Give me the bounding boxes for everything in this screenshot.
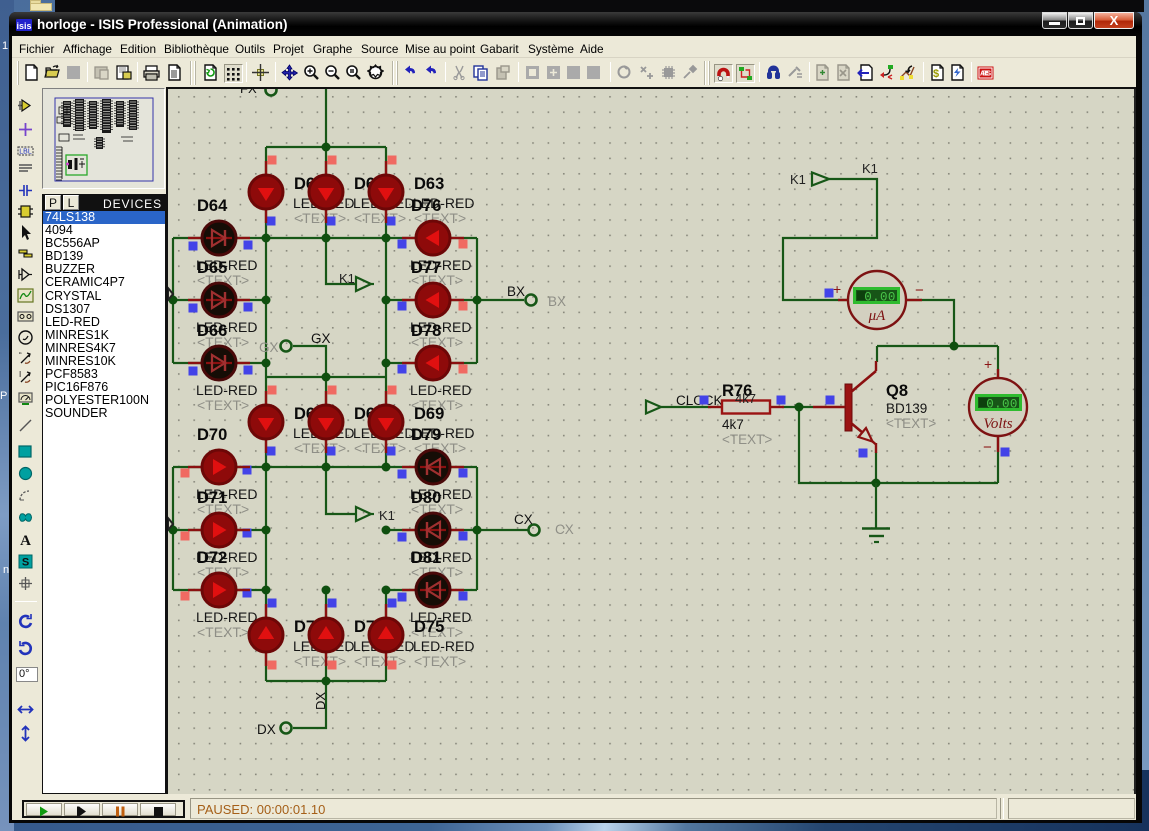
LED D74 (on) xyxy=(309,604,343,666)
junction xyxy=(169,526,178,535)
svg-text:+: + xyxy=(833,281,841,297)
wire D61 column xyxy=(265,147,267,238)
label Q8 xyxy=(886,382,936,431)
svg-text:D75: D75 xyxy=(414,618,444,636)
wire ammeter to junction xyxy=(907,300,954,346)
labels for LED D74 xyxy=(353,618,414,669)
wire emitter down xyxy=(875,452,877,483)
pause button xyxy=(102,803,138,816)
LED D62 (on) xyxy=(309,161,343,223)
svg-text:GX: GX xyxy=(259,340,279,355)
junction base node xyxy=(795,403,804,412)
junction xyxy=(322,586,331,595)
resistor R76 xyxy=(708,401,784,414)
svg-text:D64: D64 xyxy=(197,197,228,215)
input terminal K1 xyxy=(812,173,829,186)
svg-text:D76: D76 xyxy=(411,197,441,215)
bottom animation control panel xyxy=(12,794,1136,820)
svg-text:0.00: 0.00 xyxy=(864,291,896,305)
menu bar xyxy=(12,36,1136,58)
wire rail6 right xyxy=(386,589,477,591)
labels for LED D62 xyxy=(353,175,414,226)
voltmeter Volts xyxy=(969,356,1027,456)
svg-text:4k7: 4k7 xyxy=(722,417,744,432)
svg-text:<TEXT>: <TEXT> xyxy=(197,624,249,640)
P L DEVICES header xyxy=(42,194,166,211)
junction xyxy=(262,359,271,368)
wire from GX terminal xyxy=(293,346,326,377)
editor canvas xyxy=(166,87,1136,796)
svg-text:LBL: LBL xyxy=(19,149,32,156)
wire rail4 xyxy=(173,466,477,468)
labels for LED D77 xyxy=(410,259,471,350)
label K1 terminal xyxy=(790,172,806,187)
svg-text:D70: D70 xyxy=(197,426,227,444)
svg-text:LED-RED: LED-RED xyxy=(196,609,257,625)
clipped terminal at left rail5 xyxy=(168,518,173,530)
wire rail1 xyxy=(173,237,477,239)
labels for LED D68 xyxy=(353,405,414,456)
svg-text:4k7: 4k7 xyxy=(735,391,756,406)
svg-text:D80: D80 xyxy=(411,489,441,507)
buffer K1 lower triangle xyxy=(356,507,374,521)
svg-text:<TEXT>: <TEXT> xyxy=(197,397,249,413)
transistor Q8 xyxy=(813,361,876,453)
labels for LED D65 xyxy=(196,259,257,350)
wire D74 column xyxy=(325,590,327,681)
junction xyxy=(382,359,391,368)
title bar xyxy=(9,12,1142,36)
LED D79 (off) xyxy=(402,450,464,484)
labels for LED D67 xyxy=(293,405,354,456)
svg-text:Volts: Volts xyxy=(983,416,1012,432)
LED D64 (off) xyxy=(188,221,250,255)
ground xyxy=(862,483,890,542)
svg-text:D77: D77 xyxy=(411,259,441,277)
svg-text:I: I xyxy=(19,370,21,379)
close button xyxy=(1094,12,1134,29)
LED D71 (on) xyxy=(188,513,250,547)
labels for LED D80 xyxy=(410,489,471,580)
labels for LED D73 xyxy=(293,618,354,669)
wire D69 column xyxy=(385,377,387,467)
junction xyxy=(322,463,331,472)
svg-text:LED-RED: LED-RED xyxy=(196,382,257,398)
svg-text:D65: D65 xyxy=(197,259,227,277)
svg-text:DX: DX xyxy=(313,692,328,710)
LED D70 (on) xyxy=(188,450,250,484)
desktop icon label fragments xyxy=(2,40,8,52)
svg-text:Q8: Q8 xyxy=(886,382,908,400)
svg-text:−: − xyxy=(983,439,992,456)
svg-text:D79: D79 xyxy=(411,426,441,444)
junction xyxy=(262,296,271,305)
label BX gray xyxy=(548,294,566,309)
svg-text:DX: DX xyxy=(257,722,276,737)
wire rail2 right xyxy=(386,299,477,301)
wire K1 tap upper xyxy=(326,238,356,284)
labels for LED D61 xyxy=(293,175,354,226)
minimize button xyxy=(1042,12,1067,29)
wire bus1 xyxy=(266,146,386,148)
LED D67 (on) xyxy=(249,391,283,453)
wire D63 column xyxy=(385,147,387,238)
terminal DX circle xyxy=(281,723,292,734)
status: PAUSED xyxy=(190,798,997,819)
svg-text:<TEXT>: <TEXT> xyxy=(294,653,346,669)
wire to CX terminal xyxy=(477,529,528,531)
svg-text:“: “ xyxy=(19,351,22,360)
svg-text:FX: FX xyxy=(240,89,257,96)
svg-text:A: A xyxy=(20,533,31,548)
labels for LED D71 xyxy=(196,489,257,580)
folder icon on desktop xyxy=(30,3,52,11)
junction xyxy=(169,296,178,305)
wire R76 to base xyxy=(782,406,813,408)
labels for LED D72 xyxy=(196,549,257,640)
wire D68 column xyxy=(325,377,327,467)
labels for LED D66 xyxy=(196,322,257,413)
svg-text:CX: CX xyxy=(555,522,574,537)
svg-text:<TEXT>: <TEXT> xyxy=(722,432,772,447)
junction xyxy=(382,586,391,595)
junction xyxy=(473,526,482,535)
input terminal CLOCK xyxy=(646,401,661,414)
svg-text:isis: isis xyxy=(16,21,31,31)
wire D73 column xyxy=(265,590,267,681)
svg-text:LED-RED: LED-RED xyxy=(410,382,471,398)
wire voltmeter - down xyxy=(997,436,999,483)
wire column xR upper xyxy=(385,238,387,377)
step button xyxy=(64,803,100,816)
svg-text:K1: K1 xyxy=(339,271,355,286)
devices list xyxy=(42,211,166,794)
junction xyxy=(322,143,331,152)
LED D73 (on) xyxy=(249,604,283,666)
junction xyxy=(382,463,391,472)
overview / minimap panel xyxy=(42,88,165,189)
wire column xL upper xyxy=(265,238,267,377)
LED D81 (off) xyxy=(402,573,464,607)
svg-text:D66: D66 xyxy=(197,322,227,340)
svg-text:D63: D63 xyxy=(414,175,444,193)
node FX (clipped at top) xyxy=(240,81,277,96)
labels for LED D81 xyxy=(410,549,471,640)
svg-text:D81: D81 xyxy=(411,549,441,567)
svg-text:<TEXT>: <TEXT> xyxy=(294,210,346,226)
svg-text:<TEXT>: <TEXT> xyxy=(886,416,936,431)
LED D75 (on) xyxy=(369,604,403,666)
LED D72 (on) xyxy=(188,573,250,607)
junction xyxy=(262,586,271,595)
svg-text:<TEXT>: <TEXT> xyxy=(354,653,406,669)
LED D65 (off) xyxy=(188,283,250,317)
isis program icon xyxy=(16,19,32,31)
svg-text:<TEXT>: <TEXT> xyxy=(294,440,346,456)
wire rail5 right xyxy=(386,529,477,531)
LED D68 (on) xyxy=(309,391,343,453)
label CX gray xyxy=(555,522,574,537)
labels for LED D64 xyxy=(196,197,257,288)
wire to BX terminal xyxy=(477,299,524,301)
net label K1 xyxy=(862,161,878,176)
wire right rail upper xyxy=(476,238,478,363)
svg-text:BX: BX xyxy=(548,294,566,309)
svg-text:μA: μA xyxy=(868,308,887,324)
svg-text:K1: K1 xyxy=(862,161,878,176)
junction xyxy=(322,234,331,243)
desktop light streak bottom xyxy=(0,770,1149,831)
svg-text:CX: CX xyxy=(514,512,533,527)
net label DX vertical xyxy=(313,692,328,710)
svg-text:K1: K1 xyxy=(379,508,395,523)
labels for LED D75 xyxy=(413,618,474,669)
svg-text:<TEXT>: <TEXT> xyxy=(354,440,406,456)
terminal BX circle xyxy=(526,295,537,306)
wire K1 to ammeter xyxy=(783,179,877,300)
label GX black xyxy=(311,331,331,346)
terminal CX circle xyxy=(529,525,540,536)
junction collector node xyxy=(950,342,959,351)
terminal GX circle xyxy=(281,341,292,352)
maximize button xyxy=(1068,12,1093,29)
svg-text:K1: K1 xyxy=(790,172,806,187)
labels for LED D78 xyxy=(410,322,471,413)
wire D62 column xyxy=(325,147,327,238)
toolbars xyxy=(12,58,1136,89)
wire K1 tap lower xyxy=(326,467,356,514)
LED D69 (on) xyxy=(369,391,403,453)
svg-text:−: − xyxy=(915,282,924,299)
LED D63 (on) xyxy=(369,161,403,223)
wire CLOCK to R76 xyxy=(661,406,711,408)
labels for LED D63 xyxy=(413,175,474,226)
wire bus3 xyxy=(266,680,386,682)
svg-text:CLOCK: CLOCK xyxy=(676,393,723,408)
play button xyxy=(26,803,62,816)
wire top feed to bus1 xyxy=(325,89,327,147)
LED D76 (on) xyxy=(402,221,464,255)
wire left rail lower xyxy=(172,467,174,590)
wire collector stub xyxy=(876,346,878,362)
svg-text:<TEXT>: <TEXT> xyxy=(414,653,466,669)
svg-text:0.00: 0.00 xyxy=(986,398,1018,412)
LED D61 (on) xyxy=(249,161,283,223)
LED D66 (off) xyxy=(188,346,250,380)
label 4k7 xyxy=(722,417,772,447)
wire emitter bottom rail xyxy=(799,407,998,483)
svg-text:S: S xyxy=(22,557,29,569)
svg-text:D69: D69 xyxy=(414,405,444,423)
junction xyxy=(322,677,331,686)
junction xyxy=(322,373,331,382)
labels for LED D69 xyxy=(413,405,474,456)
left toolbox icons xyxy=(17,97,34,114)
junction xyxy=(382,526,391,535)
svg-text:D71: D71 xyxy=(197,489,227,507)
label CLOCK xyxy=(676,393,723,408)
wire left rail upper xyxy=(172,238,174,363)
svg-text:+: + xyxy=(984,356,992,372)
wire column xL lower xyxy=(265,467,267,590)
wire bus2 xyxy=(266,376,386,378)
wire rail3 right xyxy=(386,362,477,364)
wire right rail lower xyxy=(476,467,478,590)
wire to voltmeter + xyxy=(997,346,999,378)
LED D80 (off) xyxy=(402,513,464,547)
junction xyxy=(382,296,391,305)
labels for LED D76 xyxy=(410,197,471,288)
svg-text:BD139: BD139 xyxy=(886,401,927,416)
wire rail2 left xyxy=(173,299,266,301)
svg-text:<TEXT>: <TEXT> xyxy=(354,210,406,226)
svg-text:$: $ xyxy=(933,68,939,80)
stop button xyxy=(140,803,176,816)
svg-text:ARES: ARES xyxy=(980,71,991,78)
LED D77 (on) xyxy=(402,283,464,317)
wire rail5 left xyxy=(173,529,266,531)
wire to DX terminal xyxy=(293,681,326,728)
label R76 xyxy=(722,382,756,406)
svg-text:BX: BX xyxy=(507,284,525,299)
buffer K1 upper triangle xyxy=(356,277,374,291)
wire D75 column xyxy=(385,590,387,681)
svg-text:D72: D72 xyxy=(197,549,227,567)
ammeter U-A xyxy=(833,271,924,329)
svg-text:GX: GX xyxy=(311,331,331,346)
wire D67 column xyxy=(265,377,267,467)
pin state squares xyxy=(181,156,1010,670)
junction xyxy=(262,463,271,472)
junction xyxy=(382,234,391,243)
junction emitter node xyxy=(872,479,881,488)
junction xyxy=(262,526,271,535)
wire rail3 left xyxy=(173,362,266,364)
labels for LED D70 xyxy=(196,426,257,517)
wire rail6 left xyxy=(173,589,266,591)
junction xyxy=(473,296,482,305)
labels for LED D79 xyxy=(410,426,471,517)
clipped terminal at left rail2 xyxy=(168,288,173,300)
svg-text:D78: D78 xyxy=(411,322,441,340)
wire collector rail xyxy=(877,345,998,347)
svg-text:LED-RED: LED-RED xyxy=(413,638,474,654)
LED D78 (on) xyxy=(402,346,464,380)
junction xyxy=(262,234,271,243)
